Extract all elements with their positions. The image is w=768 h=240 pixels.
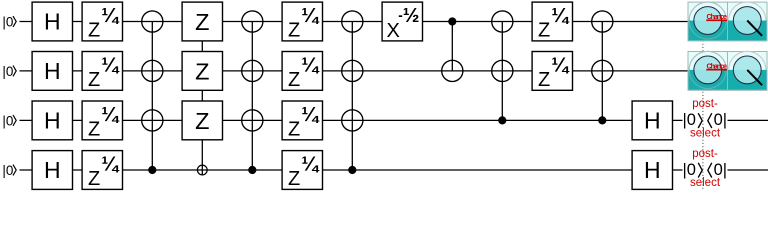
svg-text:Z: Z [288, 69, 300, 91]
gate Z^1/4 col6 q4 [282, 151, 322, 190]
svg-text:¼: ¼ [301, 5, 320, 27]
control dot col9 q1 [448, 17, 456, 25]
svg-text:|0: |0 [683, 111, 696, 129]
svg-text:post-: post- [692, 148, 718, 160]
svg-text:¼: ¼ [551, 54, 570, 76]
svg-text:H: H [644, 108, 661, 134]
CNOT target col5 q1 [242, 11, 263, 32]
svg-text:Z: Z [88, 168, 100, 190]
svg-text:¼: ¼ [101, 104, 120, 126]
control dot col10 q3 [498, 116, 506, 124]
control dot col5 q4 [248, 166, 256, 174]
gate Z^1/4 col11 q1 [532, 2, 572, 41]
control line col10 [501, 22, 503, 121]
post-select label q3 [683, 98, 728, 139]
svg-text:|0: |0 [2, 113, 13, 128]
gate H col13 q3 [632, 101, 672, 140]
wire q2 [20, 70, 689, 72]
svg-text:X: X [387, 20, 400, 42]
gate H q1 [32, 2, 72, 41]
control line col3 [151, 22, 153, 171]
gate Z^1/4 col11 q2 [532, 52, 572, 91]
svg-text:|0: |0 [2, 64, 13, 79]
svg-text:H: H [44, 58, 61, 84]
red "Chance" label q2 [706, 61, 727, 70]
gate H q2 [32, 52, 72, 91]
svg-text:Z: Z [288, 119, 300, 141]
CNOT target col12 q2 [592, 60, 613, 81]
svg-text:select: select [690, 177, 721, 189]
control dot col12 q3 [598, 116, 606, 124]
gate Z col4 q1 [182, 2, 222, 41]
svg-text:Z: Z [88, 20, 100, 42]
control line col9 [451, 22, 453, 71]
CNOT target col3 q1 [142, 11, 163, 32]
gate Z^1/4 col2 q1 [82, 2, 122, 41]
CNOT target col3 q2 [142, 60, 163, 81]
ket |0> q4 [2, 163, 16, 178]
post-select label q4 [683, 148, 728, 189]
gate X^-1/2 q1 [382, 2, 422, 41]
CNOT target col10 q2 [492, 60, 513, 81]
gate Z^1/4 col2 q2 [82, 52, 122, 91]
svg-text:Z: Z [88, 119, 100, 141]
svg-text:¼: ¼ [101, 54, 120, 76]
control dot col3 q4 [148, 166, 156, 174]
svg-text:H: H [44, 9, 61, 35]
svg-text:post-: post- [692, 98, 718, 110]
gate Z^1/4 col6 q3 [282, 101, 322, 140]
svg-text:¼: ¼ [551, 5, 570, 27]
wire q4 left [20, 169, 683, 171]
chance display q1: background [688, 2, 728, 41]
connector col4 q1-q2 [201, 41, 203, 52]
ket |0> q3 [2, 113, 16, 128]
CNOT target col9 q2 [442, 60, 463, 81]
control line col12 [601, 22, 603, 121]
ket |0> q1 [2, 14, 16, 29]
CNOT target col5 q3 [242, 110, 263, 131]
svg-text:Z: Z [195, 9, 209, 35]
gate Z col4 q2 [182, 52, 222, 91]
wire q3 left [20, 119, 683, 121]
gate Z col4 q3 [182, 101, 222, 140]
gate H col13 q4 [632, 151, 672, 190]
svg-text:|0: |0 [2, 14, 13, 29]
svg-text:Z: Z [195, 58, 209, 84]
wire q4 right [728, 169, 768, 171]
connector col4 q2-q3 [201, 90, 203, 101]
svg-text:¼: ¼ [101, 5, 120, 27]
dashed column separator line [702, 41, 704, 191]
chance display q2: background [688, 51, 728, 90]
svg-text:Z: Z [88, 69, 100, 91]
svg-text:Z: Z [538, 20, 550, 42]
CNOT target col7 q1 [342, 11, 363, 32]
svg-text:Z: Z [288, 20, 300, 42]
gate H q3 [32, 101, 72, 140]
svg-text:0|: 0| [714, 161, 727, 179]
CNOT target col7 q3 [342, 110, 363, 131]
wire q1 [20, 21, 689, 23]
CNOT target col3 q3 [142, 110, 163, 131]
CNOT target col5 q2 [242, 60, 263, 81]
red "Chance" label q1 [706, 12, 727, 21]
CNOT target col7 q2 [342, 60, 363, 81]
ket |0> q2 [2, 64, 16, 79]
svg-text:select: select [690, 128, 721, 140]
bloch display q2 [728, 51, 768, 90]
CNOT target col12 q1 [592, 11, 613, 32]
svg-text:¼: ¼ [301, 54, 320, 76]
CNOT target col10 q1 [492, 11, 513, 32]
svg-text:½: ½ [403, 5, 420, 27]
gate Z^1/4 col6 q2 [282, 52, 322, 91]
svg-text:H: H [644, 157, 661, 183]
connector col4 q3-q4 [201, 140, 203, 175]
gate Z^1/4 col2 q3 [82, 101, 122, 140]
wire q3 right [728, 119, 768, 121]
svg-text:Z: Z [195, 108, 209, 134]
control dot col7 q4 [348, 166, 356, 174]
svg-text:¼: ¼ [101, 153, 120, 175]
gate Z^1/4 col6 q1 [282, 2, 322, 41]
svg-text:H: H [44, 157, 61, 183]
svg-text:|0: |0 [2, 163, 13, 178]
gate Z^1/4 col2 q4 [82, 151, 122, 190]
svg-text:¼: ¼ [301, 104, 320, 126]
svg-text:0|: 0| [714, 111, 727, 129]
svg-text:¼: ¼ [301, 153, 320, 175]
control line col7 [351, 22, 353, 171]
svg-text:|0: |0 [683, 161, 696, 179]
control line col5 [251, 22, 253, 171]
bloch display q1 [728, 2, 768, 41]
svg-text:Z: Z [538, 69, 550, 91]
svg-text:H: H [44, 108, 61, 134]
svg-text:Z: Z [288, 168, 300, 190]
parity (xor) control col4 q4 [197, 165, 207, 175]
gate H q4 [32, 151, 72, 190]
